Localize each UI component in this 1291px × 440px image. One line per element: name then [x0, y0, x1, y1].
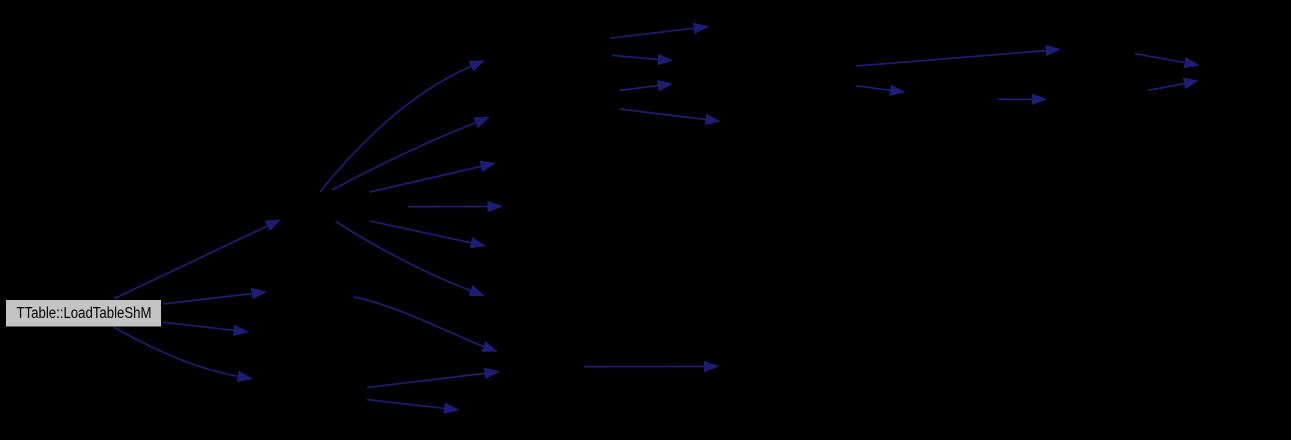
arrowhead E11 [481, 341, 498, 352]
arrowhead E2 [251, 288, 267, 300]
arrowhead E21 [1032, 94, 1048, 106]
wire E21 [997, 98, 1032, 100]
arrowhead E4 [237, 371, 253, 382]
arrowhead E15 [657, 54, 673, 65]
arrowhead E8 [488, 201, 504, 213]
arrowhead E5 [469, 60, 486, 72]
wire E17 [621, 109, 706, 119]
wire E18 [584, 366, 704, 368]
wire E3 [163, 322, 234, 330]
arrowhead E3 [233, 325, 249, 337]
node TTable::LoadTableShM [6, 300, 161, 327]
wire E8 [408, 206, 488, 208]
arrowhead E6 [474, 117, 491, 128]
wire E1 [114, 226, 267, 299]
svg-text:TTable::LoadTableShM: TTable::LoadTableShM [17, 305, 152, 322]
arrowhead E22 [1184, 57, 1200, 68]
arrowhead E1 [265, 219, 282, 231]
wire E16 [620, 86, 658, 91]
arrowhead E14 [693, 23, 709, 34]
wire E11 [354, 297, 483, 346]
wire E14 [611, 28, 694, 38]
wire E23 [1148, 84, 1184, 91]
arrowhead E16 [657, 80, 673, 92]
wire E5 [320, 66, 471, 192]
wire E10 [336, 221, 471, 290]
wire E4 [115, 328, 238, 377]
arrowhead E19 [1045, 45, 1061, 57]
arrowhead E17 [705, 114, 721, 126]
wire E9 [370, 221, 471, 243]
arrowhead E9 [470, 237, 486, 248]
arrowhead E23 [1183, 78, 1199, 89]
wire E22 [1135, 54, 1185, 63]
wire E6 [332, 123, 476, 190]
arrowhead E18 [704, 361, 720, 373]
arrowhead E7 [480, 161, 496, 172]
arrowhead E12 [484, 368, 500, 380]
wire E15 [612, 55, 658, 59]
arrowhead E13 [443, 403, 459, 415]
wire E19 [856, 51, 1046, 66]
wire E2 [163, 294, 252, 304]
wire E20 [856, 86, 891, 91]
wire E7 [370, 167, 481, 193]
wire E13 [367, 400, 444, 409]
arrowhead E20 [889, 85, 905, 97]
wire E12 [367, 373, 485, 387]
arrowhead E10 [469, 285, 486, 296]
